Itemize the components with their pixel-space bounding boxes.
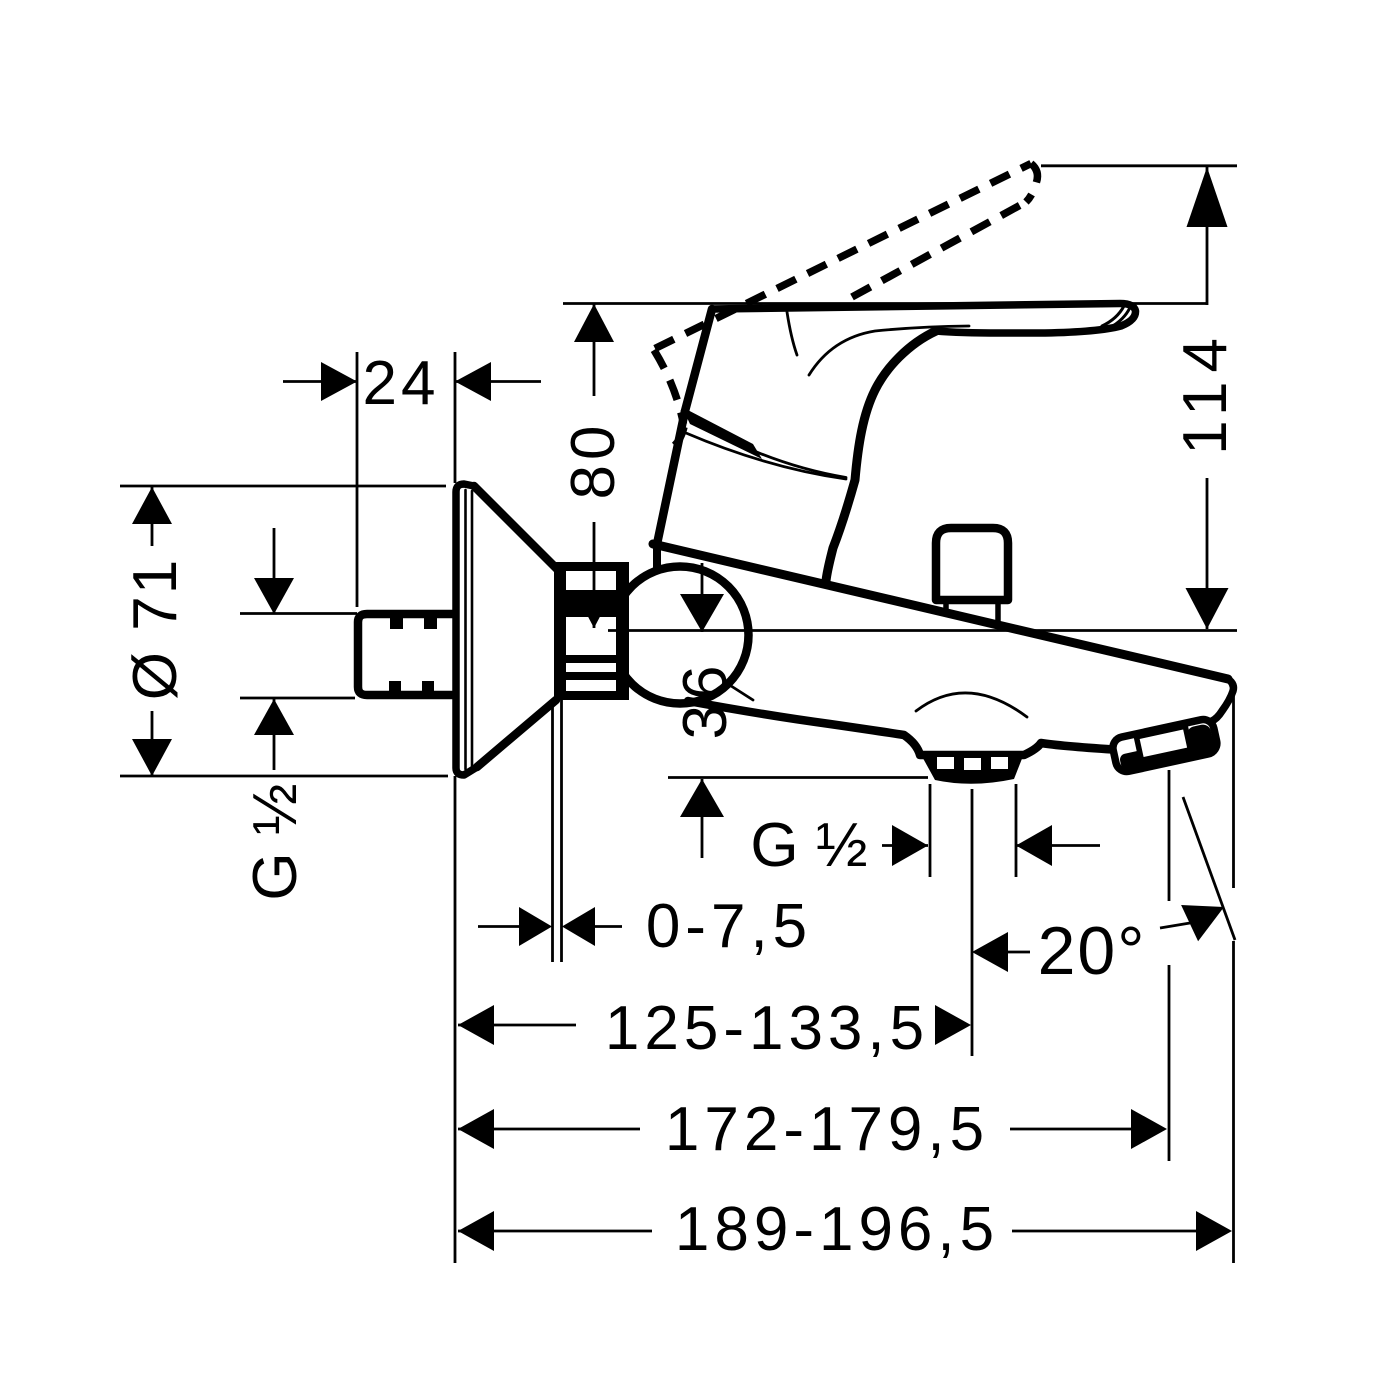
- arrow 172 right: [1131, 1109, 1167, 1149]
- arrow 24 right: [455, 362, 491, 401]
- svg-text:36: 36: [671, 661, 740, 740]
- small detail arc on handle base: [787, 312, 797, 355]
- dimension line 24: [283, 380, 541, 383]
- nipple thread marks: [389, 618, 437, 692]
- dimension line diam 71: [151, 487, 154, 776]
- dimension line outlet G1/2: [882, 844, 1100, 847]
- arrow 172 left: [458, 1109, 494, 1149]
- dimension line 125-133,5: [458, 1024, 576, 1027]
- extension line outlet left G1/2: [929, 784, 932, 877]
- arrow outlet G1/2 left: [892, 825, 928, 866]
- extension line nipple end vertical (24 ref): [356, 352, 359, 607]
- svg-text:24: 24: [363, 349, 440, 418]
- arrow diam 71 top: [132, 487, 172, 524]
- shadow wedge between handle and cap: [682, 407, 762, 459]
- arrow 114 bottom: [1186, 588, 1229, 629]
- arrow 36 bottom: [680, 779, 724, 817]
- bottom tub-outlet flange G1/2: [919, 751, 1025, 784]
- spout top edge: [653, 544, 1228, 679]
- svg-text:125-133,5: 125-133,5: [605, 994, 929, 1063]
- arrow 125 left: [458, 1005, 494, 1045]
- handle tip inner detail arcs: [1102, 306, 1124, 326]
- extension line outlet right G1/2: [1015, 784, 1018, 877]
- dome arc on spout body: [916, 693, 1027, 717]
- extension line nipple bottom: [240, 697, 355, 700]
- ball joint of mixer body: [612, 567, 749, 704]
- handle neck front S-curve: [826, 331, 936, 581]
- dashed handle in raised position: [654, 164, 1037, 451]
- svg-text:114: 114: [1171, 329, 1240, 455]
- arrow 20 deg right: [1181, 905, 1224, 941]
- arrow 80 bottom: [574, 590, 614, 628]
- dimension line 172-179,5: [458, 1128, 1131, 1131]
- arrow 80 top: [574, 304, 614, 342]
- svg-text:20°: 20°: [1038, 913, 1147, 989]
- extension line spout tip (189 ref): [1232, 684, 1235, 1263]
- extension line handle top (80 ref): [563, 302, 1208, 305]
- flange thread gaps: [937, 757, 1008, 770]
- escutcheon cone bottom surface: [477, 700, 556, 767]
- aerator outlet piece: [1111, 717, 1219, 773]
- extension line rosette top (diam 71): [120, 485, 446, 488]
- arrow nipple top: [254, 578, 294, 614]
- diverter knob: [936, 528, 1008, 600]
- threaded wall nipple G1/2: [358, 614, 455, 695]
- leader line from ball to 36 label: [728, 684, 753, 700]
- svg-text:189-196,5: 189-196,5: [675, 1195, 999, 1264]
- extension line rosette bottom (diam 71): [120, 775, 448, 778]
- extension line outlet axis: [971, 789, 974, 1056]
- wall rosette (escutcheon plate): [456, 484, 477, 775]
- handle lever top edge and rounded tip: [712, 304, 1136, 334]
- adjustment lines 0-7,5: [553, 700, 562, 962]
- spout bottom edge with outlet recess: [688, 701, 1113, 755]
- svg-text:Ø 71: Ø 71: [121, 558, 190, 700]
- svg-text:G ½: G ½: [241, 783, 310, 900]
- extension line flange underside (36 ref): [668, 776, 928, 779]
- arrow 125 right: [935, 1005, 971, 1045]
- extension line wall plane vertical: [454, 352, 457, 1263]
- arrow 36 top: [680, 594, 724, 632]
- arrow diam 71 bottom: [132, 739, 172, 776]
- svg-text:G ½: G ½: [750, 811, 867, 880]
- handle underside seam: [809, 326, 969, 375]
- diverter knob stem: [946, 602, 998, 624]
- arrow 0-7,5 right: [562, 907, 595, 946]
- svg-text:0-7,5: 0-7,5: [646, 892, 812, 961]
- arrow nipple bottom: [254, 699, 294, 735]
- arrow 20 deg left: [972, 932, 1008, 972]
- dimension line 20 degrees: [1008, 923, 1190, 952]
- horizontal centre line: [608, 629, 1237, 632]
- dimension line 189-196,5: [458, 1230, 1196, 1233]
- extension line aerator axis (172 ref): [1168, 770, 1171, 1161]
- dimension line 36: [701, 563, 704, 858]
- extension line nipple top: [240, 612, 357, 615]
- extension line raised-handle tip (114 ref): [1041, 164, 1237, 167]
- arrow 0-7,5 left: [519, 907, 552, 946]
- 20 degree slanted line: [1183, 797, 1235, 940]
- svg-text:80: 80: [559, 421, 628, 500]
- dimension line nipple G1/2: [273, 528, 276, 770]
- arrow 114 top: [1187, 167, 1228, 227]
- escutcheon cone top surface: [474, 486, 558, 570]
- dimension line 114: [1206, 167, 1209, 629]
- arrow outlet G1/2 right: [1016, 825, 1052, 866]
- knurled union nut: [554, 562, 629, 700]
- dimension line 80: [593, 304, 596, 628]
- cartridge cap seam lower: [686, 433, 846, 479]
- arrow 24 left: [321, 362, 357, 401]
- arrow 189 left: [458, 1211, 494, 1251]
- body left edge: [657, 411, 685, 544]
- rosette face lines: [464, 490, 467, 769]
- dimension line 0-7,5: [478, 925, 622, 928]
- handle rear edge: [685, 309, 712, 411]
- cartridge cap seam upper: [687, 417, 846, 478]
- arrow 189 right: [1196, 1211, 1232, 1251]
- spout tip outline: [1211, 679, 1233, 722]
- svg-text:172-179,5: 172-179,5: [665, 1095, 989, 1164]
